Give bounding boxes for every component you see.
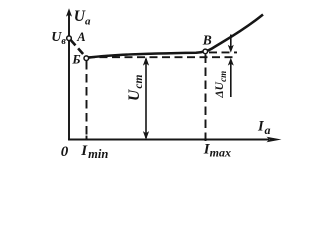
svg-text:А: А xyxy=(76,30,85,44)
svg-text:0: 0 xyxy=(61,144,69,160)
svg-text:В: В xyxy=(202,33,212,48)
svg-text:Б: Б xyxy=(71,52,80,67)
